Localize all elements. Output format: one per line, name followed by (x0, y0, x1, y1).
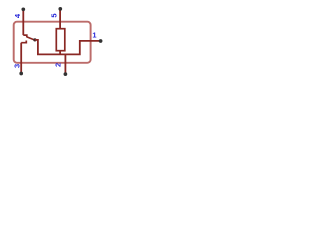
pin 2 wire (bottom-middle vertical) (64, 54, 66, 74)
pin 3 wire (bottom-left vertical) (20, 43, 22, 74)
pin 4 wire (top-left vertical) (22, 9, 24, 35)
svg-text:1: 1 (92, 30, 96, 39)
pin 4 terminal dot (21, 7, 25, 11)
pin 2 terminal dot (64, 72, 68, 76)
svg-text:2: 2 (53, 63, 62, 67)
switch top contact stub (23, 35, 27, 37)
component body outline (relay box) (14, 22, 91, 63)
svg-text:4: 4 (13, 13, 22, 18)
svg-text:5: 5 (50, 13, 59, 17)
switch common dot (33, 38, 36, 41)
switch bottom contact stub (21, 41, 26, 43)
common net wire: switch dot to pin 1 via bottom rail (35, 40, 101, 55)
coil bottom stub (59, 51, 61, 55)
pin 1 terminal dot (99, 39, 103, 43)
coil rectangle (56, 29, 65, 51)
pin 5 terminal dot (58, 7, 62, 11)
pin 5 wire (top-middle vertical, into coil top) (59, 9, 61, 29)
switch blade (diagonal) (27, 37, 35, 40)
svg-text:3: 3 (12, 64, 21, 68)
pin 3 terminal dot (19, 72, 23, 76)
